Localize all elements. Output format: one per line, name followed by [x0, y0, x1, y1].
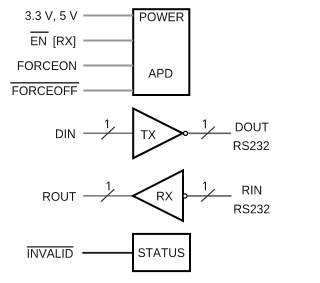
pin label RIN — [243, 186, 262, 195]
block U1 APD (power block) — [133, 9, 189, 95]
pin label FORCEOFF — [13, 86, 78, 95]
net label RS232 of RIN — [234, 205, 269, 214]
bus slash on RIN wire — [201, 189, 214, 202]
wire INVALID to STATUS block — [82, 252, 133, 254]
wire RIN to RX bubble — [188, 195, 232, 197]
pin label ROUT — [43, 192, 76, 201]
wire EN[RX] to APD — [83, 39, 133, 41]
label APD — [148, 69, 172, 78]
wire DIN to TX buffer — [83, 132, 133, 134]
pin label EN — [31, 37, 46, 46]
bus width 1 of DOUT — [203, 120, 206, 129]
label STATUS — [138, 248, 184, 257]
bus width 1 of ROUT — [107, 182, 110, 191]
overline over INVALID — [27, 246, 74, 248]
wire FORCEON to APD — [83, 64, 133, 66]
pin label FORCEON — [18, 61, 76, 70]
pin label 3.3 V, 5 V — [25, 11, 77, 21]
inverter bubble at RX input — [183, 194, 187, 198]
pin label INVALID — [28, 249, 73, 258]
inverter bubble at TX output — [183, 131, 187, 135]
buffer TX (driver triangle) — [133, 109, 183, 159]
label RX — [157, 192, 173, 201]
wire TX output to DOUT — [188, 132, 231, 134]
pin label DIN — [56, 129, 75, 138]
overline over FORCEOFF — [10, 82, 79, 84]
wire ROUT to RX buffer — [83, 195, 133, 197]
label TX — [141, 130, 156, 139]
wire FORCEOFF to APD — [83, 89, 133, 91]
buffer RX (receiver triangle, points left) — [133, 170, 183, 221]
bus slash on DIN wire — [101, 127, 114, 140]
bus width 1 of DIN — [105, 120, 108, 129]
block U2 STATUS — [133, 234, 190, 271]
label POWER — [140, 12, 184, 21]
overline over EN — [30, 31, 48, 33]
net label RS232 of DOUT — [234, 141, 269, 150]
pin label DOUT — [236, 123, 269, 132]
pin label [RX] — [54, 36, 76, 48]
bus width 1 of RIN — [203, 182, 206, 191]
bus slash on ROUT wire — [101, 189, 114, 202]
wire 3.3V,5V to APD — [83, 14, 133, 16]
bus slash on DOUT wire — [201, 127, 214, 140]
